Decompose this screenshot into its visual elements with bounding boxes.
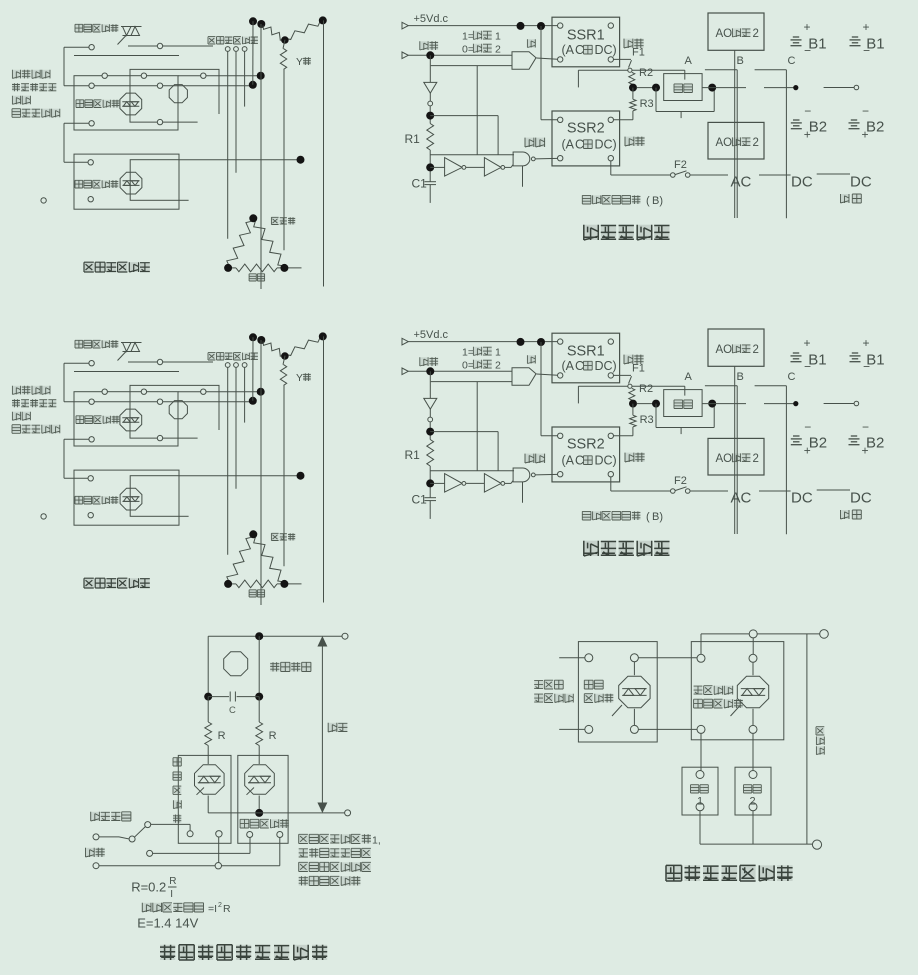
svg-text:B): B) — [652, 195, 663, 207]
svg-text:B: B — [737, 55, 744, 67]
svg-text:SSR2: SSR2 — [567, 121, 605, 137]
svg-text:C1: C1 — [412, 177, 428, 191]
svg-text:A: A — [685, 55, 693, 67]
svg-text:DC): DC) — [595, 138, 617, 152]
svg-text:B1: B1 — [866, 36, 884, 53]
svg-text:0=: 0= — [462, 44, 474, 56]
svg-text:B2: B2 — [866, 119, 884, 136]
svg-text:R3: R3 — [640, 98, 654, 110]
svg-text:2: 2 — [750, 796, 756, 808]
svg-text:AO: AO — [716, 28, 733, 40]
svg-text:(: ( — [646, 195, 650, 207]
svg-text:R=0.2: R=0.2 — [131, 879, 166, 894]
svg-text:C: C — [788, 55, 796, 67]
svg-text:AC: AC — [731, 174, 752, 191]
svg-text:C: C — [575, 43, 584, 57]
svg-text:R: R — [223, 903, 231, 915]
svg-text:R2: R2 — [639, 67, 653, 79]
svg-text:R1: R1 — [405, 132, 421, 146]
svg-text:(A: (A — [562, 138, 575, 152]
svg-text:DC: DC — [791, 174, 813, 191]
svg-text:2: 2 — [495, 44, 501, 56]
svg-text:−: − — [862, 104, 869, 118]
svg-text:I: I — [170, 889, 173, 900]
svg-text:1: 1 — [495, 31, 501, 43]
svg-text:C: C — [229, 705, 236, 716]
svg-text:F1: F1 — [632, 47, 645, 59]
svg-text:2: 2 — [753, 137, 759, 149]
svg-text:R: R — [218, 730, 226, 742]
svg-text:(A: (A — [562, 43, 575, 57]
svg-text:F2: F2 — [674, 159, 687, 171]
svg-text:B1: B1 — [808, 36, 826, 53]
svg-text:2: 2 — [753, 28, 759, 40]
svg-text:+: + — [804, 20, 811, 34]
svg-text:+: + — [863, 20, 870, 34]
svg-text:+5Vd.c: +5Vd.c — [414, 13, 449, 25]
svg-text:2: 2 — [218, 902, 222, 909]
svg-text:R: R — [269, 730, 277, 742]
svg-text:AO: AO — [716, 137, 733, 149]
svg-text:C: C — [575, 138, 584, 152]
svg-text:Y: Y — [296, 56, 303, 68]
svg-text:DC: DC — [850, 174, 872, 191]
svg-text:R: R — [169, 876, 176, 887]
svg-text:SSR1: SSR1 — [567, 28, 605, 44]
svg-text:1=: 1= — [462, 31, 474, 43]
svg-text:−: − — [804, 104, 811, 118]
svg-text:E=1.4 14V: E=1.4 14V — [137, 916, 198, 931]
svg-text:1: 1 — [697, 796, 703, 808]
svg-text:1,: 1, — [372, 835, 381, 847]
svg-text:B2: B2 — [809, 119, 827, 136]
svg-text:DC): DC) — [595, 43, 617, 57]
svg-text:=I: =I — [208, 903, 217, 915]
